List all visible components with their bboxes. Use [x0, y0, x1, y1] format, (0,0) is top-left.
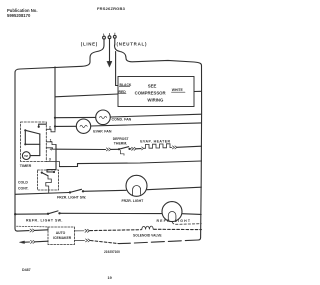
- power plug (LINE / NEUTRAL): [103, 33, 117, 45]
- svg-text:DEFROST: DEFROST: [113, 137, 129, 141]
- wire: heater row to rail: [177, 146, 202, 147]
- compressor box: [118, 77, 194, 107]
- wire: dashed lower row toward bottom line: [91, 241, 120, 244]
- svg-text:3: 3: [49, 158, 51, 162]
- timer pin 1 stub: [46, 142, 56, 145]
- wire: dashed refr bulb lead to rail: [173, 222, 202, 224]
- svg-text:EVAP. FAN: EVAP. FAN: [93, 130, 112, 134]
- svg-text:AUTO: AUTO: [56, 231, 66, 235]
- timer pin 4 stub: [46, 148, 57, 149]
- svg-text:RED: RED: [119, 90, 127, 94]
- svg-text:SOLENOID VALVE: SOLENOID VALVE: [133, 233, 162, 237]
- wire: refr bulb to rail: [182, 213, 201, 216]
- wire: right rail vertical: [198, 66, 201, 241]
- node: junction at left rail refr row: [14, 213, 16, 215]
- ground: center prong ground arrow: [109, 45, 111, 62]
- wire: pin3 row toward right: [60, 161, 202, 167]
- heater: evaporator defrost heater element: [144, 144, 172, 149]
- wire: bottom right return line (long dashes): [119, 240, 198, 244]
- wire: evap fan row left: [55, 125, 76, 127]
- wire: black wire drop from neutral curve to compressor box: [116, 52, 118, 86]
- svg-text:ICEMAKER: ICEMAKER: [53, 236, 72, 240]
- wire: right neutral wire from plug to right rail: [115, 45, 202, 66]
- connector: chevron before heater: [142, 147, 144, 150]
- svg-text:TM: TM: [24, 154, 28, 158]
- svg-text:SEE: SEE: [148, 84, 157, 89]
- svg-text:2: 2: [49, 125, 51, 129]
- switch: freezer light switch blade: [70, 189, 82, 192]
- wire: timer left vertical: [24, 130, 26, 144]
- wire: defrost heater row from pin 4: [57, 148, 106, 150]
- connector: icemaker left lower arrow: [20, 241, 25, 244]
- svg-text:COMPRESSOR: COMPRESSOR: [135, 91, 167, 96]
- plug prong loop left: [103, 36, 106, 39]
- node: defrost thermostat contact left: [118, 148, 120, 150]
- wire: timer inner vertical: [39, 134, 41, 156]
- node: refr switch left contact: [47, 213, 49, 215]
- node: cold control right contact: [53, 171, 55, 173]
- svg-text:FRS26ZRGB3: FRS26ZRGB3: [97, 6, 126, 11]
- timer pin 2 stub: [46, 129, 55, 132]
- lamp: freezer light bulb: [126, 175, 147, 196]
- svg-text:FRZR. LIGHT SW.: FRZR. LIGHT SW.: [57, 195, 86, 199]
- defrost thermostat bracket: [120, 150, 124, 155]
- node: junction dot cond fan: [54, 117, 56, 119]
- svg-text:5995208170: 5995208170: [7, 13, 31, 18]
- wire: left line bus from plug to left rail: [15, 45, 104, 73]
- wire: cond fan row right to rail: [110, 114, 201, 117]
- svg-text:FRZR. LIGHT: FRZR. LIGHT: [122, 199, 145, 203]
- svg-text:TIMER: TIMER: [20, 164, 32, 168]
- wire: evap fan row right to rail: [91, 123, 202, 126]
- svg-text:COLD: COLD: [18, 181, 28, 185]
- wire: timer motor lead: [30, 155, 40, 157]
- wire: dashed solenoid to rail: [154, 228, 202, 230]
- cold control: dashed box: [38, 170, 59, 190]
- icemaker: wire from rail corner to connector: [18, 230, 29, 232]
- svg-text:19: 19: [108, 276, 112, 280]
- switch: refr light switch blade: [48, 211, 58, 214]
- svg-text:D487: D487: [22, 268, 31, 272]
- svg-text:THERM.: THERM.: [114, 141, 127, 145]
- wire: timer inner horizontal: [25, 143, 40, 145]
- wire: refr row to bulb: [60, 212, 163, 214]
- connector: defrost row left chevrons: [106, 148, 111, 151]
- svg-text:WIRING: WIRING: [147, 98, 164, 103]
- wire: dashed to solenoid: [90, 229, 141, 232]
- node: refr switch right contact: [58, 212, 60, 214]
- cold control sensing hook: [46, 176, 52, 193]
- icemaker: dashed box AUTO ICEMAKER: [48, 227, 75, 245]
- svg-text:REFR. LIGHT: REFR. LIGHT: [157, 219, 192, 223]
- connector: icemaker left upper chevrons: [30, 229, 35, 232]
- svg-text:WHITE: WHITE: [172, 88, 184, 92]
- svg-text:219257100: 219257100: [104, 250, 120, 254]
- motor: evaporator fan motor circle: [76, 119, 90, 133]
- svg-text:EVAP. HEATER: EVAP. HEATER: [140, 139, 170, 143]
- wire: white wire compressor to right rail: [194, 90, 202, 92]
- switch: defrost thermostat blade: [119, 147, 129, 150]
- wire: left rail vertical: [15, 73, 18, 232]
- switch: timer blade: [25, 130, 40, 134]
- motor: condenser fan motor circle: [96, 110, 111, 125]
- wire: pin1 vertical to cold control: [47, 145, 56, 172]
- wire: dashed stub left of icemaker box top: [17, 225, 49, 228]
- solenoid valve coil: [142, 226, 153, 229]
- node: freezer switch right contact: [82, 190, 84, 192]
- motor: timer motor TM: [22, 152, 30, 160]
- lamp: refrigerator light bulb: [162, 202, 182, 222]
- connector: icemaker right lower chevrons: [75, 239, 91, 242]
- node: timer dot lower-left: [24, 143, 26, 145]
- svg-text:COND. FAN: COND. FAN: [112, 118, 132, 122]
- wire: center vertical feed from top bus: [54, 67, 56, 130]
- plug prong loop right: [113, 35, 116, 38]
- connector: icemaker right upper chevrons: [75, 229, 90, 232]
- timer internals: [22, 124, 46, 159]
- connector: heater row chevrons left: [132, 147, 137, 150]
- node: defrost thermostat contact right: [128, 148, 130, 150]
- wire: red wire from center rail to compressor: [55, 94, 118, 97]
- wire: pin2 dot link: [39, 124, 47, 127]
- node: timer contact dot pin2 side: [38, 126, 40, 128]
- svg-text:1: 1: [50, 138, 52, 142]
- node: junction freezer switch left: [69, 191, 71, 193]
- connector: icemaker left lower chevrons: [31, 240, 36, 243]
- node: cold control left contact: [41, 172, 43, 174]
- svg-text:REFR. LIGHT SW.: REFR. LIGHT SW.: [26, 219, 63, 223]
- svg-text:CONT.: CONT.: [18, 187, 29, 191]
- svg-text:BLACK: BLACK: [120, 83, 132, 87]
- timer: dashed timer box: [21, 122, 47, 162]
- plug prong loop center: [108, 36, 111, 39]
- wire: feed into right contact: [47, 171, 54, 173]
- node: junction dot evap fan: [54, 125, 56, 127]
- svg-text:(NEUTRAL): (NEUTRAL): [117, 42, 148, 47]
- wire: freezer row to bulb: [83, 190, 126, 191]
- wire: freezer light switch row from left rail: [15, 193, 69, 195]
- wire: refrigerator light switch row: [15, 213, 47, 215]
- node: timer contact dot top-left: [24, 129, 26, 131]
- timer pin 3 stub: [46, 162, 59, 167]
- wire: cond fan row left: [55, 116, 96, 118]
- switch: cold control blade: [42, 173, 48, 176]
- svg-text:(LINE): (LINE): [81, 42, 98, 47]
- connector: heater row chevrons right: [172, 146, 177, 149]
- wire: freezer bulb to rail: [147, 187, 201, 190]
